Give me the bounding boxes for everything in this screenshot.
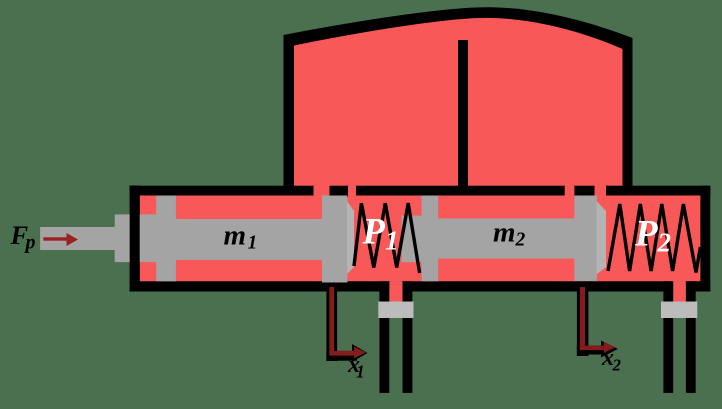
svg-text:1: 1 <box>356 362 365 382</box>
svg-text:P: P <box>362 211 386 252</box>
svg-text:1: 1 <box>385 225 399 256</box>
svg-text:m: m <box>224 219 247 251</box>
svg-text:2: 2 <box>657 228 672 258</box>
svg-text:m: m <box>493 217 516 249</box>
svg-text:2: 2 <box>515 230 526 251</box>
svg-text:2: 2 <box>612 356 622 375</box>
svg-text:p: p <box>24 232 36 254</box>
svg-text:1: 1 <box>248 233 258 254</box>
svg-text:P: P <box>634 214 658 255</box>
